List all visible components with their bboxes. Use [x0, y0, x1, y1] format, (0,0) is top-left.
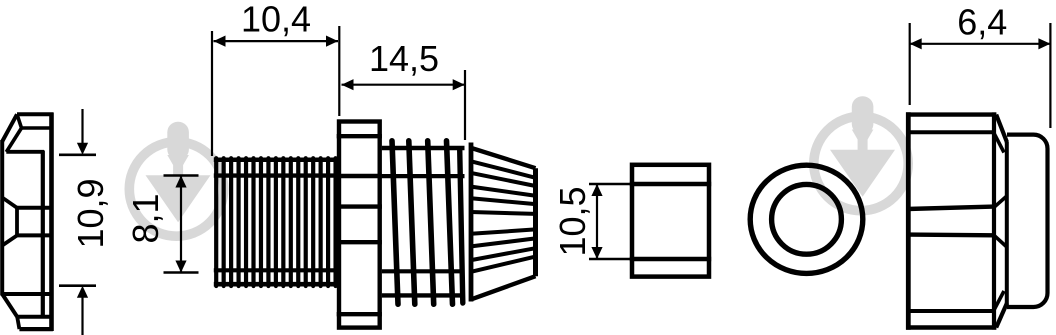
- watermark logo 1: [129, 122, 223, 236]
- gland body: entry thread (left): [214, 158, 338, 286]
- svg-text:10,4: 10,4: [241, 0, 311, 40]
- seal insert (side view): [630, 165, 711, 277]
- gland body: compression thread (right): [382, 141, 465, 304]
- svg-text:8,1: 8,1: [125, 193, 166, 243]
- dimension 6,4 (cap nut height): [910, 2, 1051, 128]
- gland body: clamping claw cone: [471, 143, 536, 302]
- washer inner circle: [772, 184, 842, 254]
- svg-text:6,4: 6,4: [957, 2, 1007, 43]
- locknut N1 (left, oblique view): [2, 113, 53, 332]
- washer outer circle: [750, 165, 863, 273]
- dimension 8,1 (thread minor dia): [125, 176, 199, 273]
- cap nut (right, side view): [906, 112, 1048, 329]
- svg-text:10,9: 10,9: [70, 178, 111, 248]
- svg-text:10,5: 10,5: [552, 186, 593, 256]
- dimension 10,9 (locknut height): [59, 109, 111, 335]
- dimension 10,5 (seal length): [552, 184, 630, 259]
- gland body: hex flange: [337, 122, 382, 328]
- dimension 10,4 (entry thread length): [212, 0, 339, 156]
- svg-text:14,5: 14,5: [369, 38, 439, 79]
- watermark logo 2: [814, 96, 908, 210]
- dimension 14,5 (body length): [342, 38, 466, 140]
